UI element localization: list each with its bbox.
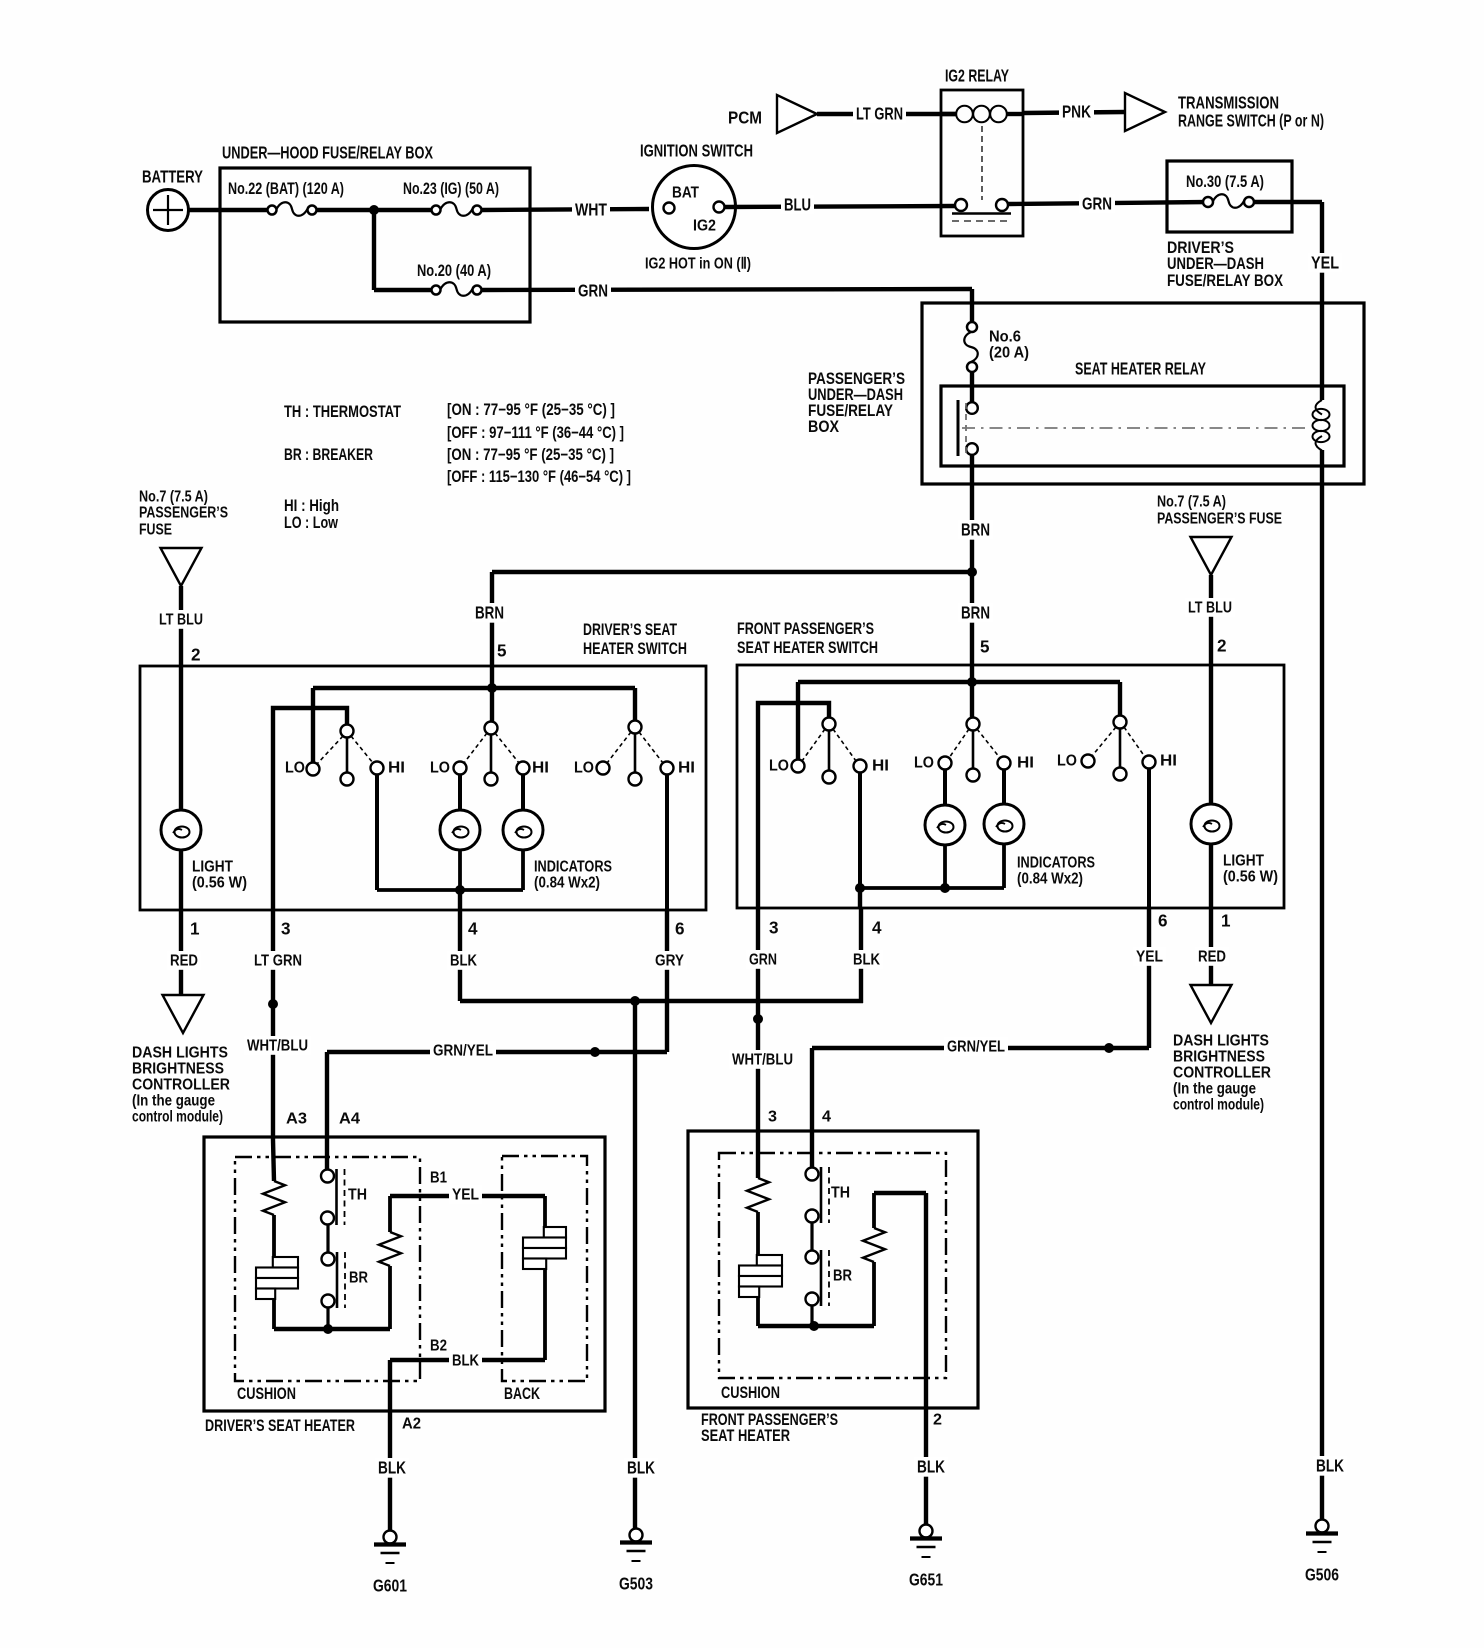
junction node cushion passenger: [809, 1321, 819, 1331]
indicator lamp 2 driver: [503, 810, 543, 850]
wire switch3 HI to pin 6: [665, 774, 669, 910]
svg-text:No.20 (40 A): No.20 (40 A): [417, 262, 491, 280]
svg-text:YEL: YEL: [452, 1187, 479, 1204]
heater resistor 2 driver: [379, 1196, 401, 1329]
fuse No.20 (40 A): [417, 262, 491, 296]
wire BLK pin4 to ground bus: [447, 910, 863, 1001]
svg-text:PNK: PNK: [1062, 103, 1092, 122]
svg-text:A4: A4: [339, 1111, 360, 1128]
wire GRY pin6 to GRN/YEL line: [327, 910, 687, 1140]
svg-text:G506: G506: [1305, 1566, 1339, 1585]
svg-text:LO: LO: [914, 755, 934, 772]
svg-text:[ON : 77−95 °F (25−35 °C) ]: [ON : 77−95 °F (25−35 °C) ]: [447, 446, 614, 464]
cushion dash-dot box driver: [235, 1157, 420, 1403]
svg-text:SEAT HEATER RELAY: SEAT HEATER RELAY: [1075, 360, 1206, 379]
svg-text:PASSENGER’S: PASSENGER’S: [139, 505, 228, 522]
junction node passenger bus pin5: [967, 677, 977, 687]
fuse No.23 (IG) (50 A): [403, 180, 499, 216]
svg-text:DRIVER’S SEAT: DRIVER’S SEAT: [583, 621, 677, 639]
svg-text:LO: LO: [1057, 753, 1077, 770]
wire passenger switch2 HI to indicator 2: [1002, 769, 1006, 805]
svg-text:6: 6: [1158, 912, 1168, 931]
wire bus to switch3 pivot: [633, 688, 637, 721]
svg-text:control module): control module): [1173, 1097, 1264, 1114]
wire passenger switch2 LO to indicator 1: [943, 769, 947, 806]
fuse No.22 (BAT) (120 A): [228, 180, 344, 216]
indicator lamp 1 passenger: [925, 805, 965, 845]
svg-text:[OFF : 97−111 °F (36−44 °C) ]: [OFF : 97−111 °F (36−44 °C) ]: [447, 424, 624, 442]
wire YEL relay coil down to G506: [1320, 450, 1324, 1520]
wire junction down to fuse No.20: [372, 210, 376, 290]
svg-text:BOX: BOX: [808, 418, 839, 436]
svg-text:DASH LIGHTS: DASH LIGHTS: [132, 1045, 228, 1062]
svg-text:(0.84 Wx2): (0.84 Wx2): [1017, 871, 1083, 888]
svg-text:BLK: BLK: [378, 1459, 407, 1478]
passenger switch position 2: [914, 718, 1034, 782]
wire YEL passenger pin6 to GRN/YEL line: [812, 908, 1166, 1131]
wire switch1 pivot to pin 3: [273, 708, 347, 910]
svg-text:BRN: BRN: [961, 604, 990, 623]
wire GRN down into passenger under-dash box: [970, 289, 974, 327]
wire RED passenger pin1 to controller: [1191, 908, 1232, 1023]
junction node bus pin5: [487, 683, 497, 693]
driver's under-dash fuse/relay box with fuse No.30 (7.5 A): [1167, 161, 1292, 290]
wire pin 5 into driver switch: [490, 666, 494, 688]
driver's seat heater switch box: [140, 621, 706, 910]
svg-text:(0.56 W): (0.56 W): [192, 875, 247, 892]
svg-text:No.23 (IG) (50 A): No.23 (IG) (50 A): [403, 180, 499, 198]
svg-text:3: 3: [769, 919, 779, 938]
wire switch1 HI down to indicator bus: [375, 774, 379, 890]
svg-text:BLK: BLK: [452, 1353, 479, 1370]
wire passenger switch1 pivot to pin 3: [758, 703, 829, 908]
svg-text:2: 2: [933, 1412, 942, 1429]
svg-text:FUSE: FUSE: [139, 522, 172, 539]
svg-text:LO: LO: [769, 758, 789, 775]
svg-text:No.22 (BAT) (120 A): No.22 (BAT) (120 A): [228, 180, 344, 198]
relay IG2 RELAY: [941, 67, 1023, 237]
svg-text:BRIGHTNESS: BRIGHTNESS: [1173, 1049, 1265, 1066]
wire bus to passenger switch1 LO: [796, 682, 800, 760]
seat heater relay: [941, 360, 1344, 467]
svg-text:No.30 (7.5 A): No.30 (7.5 A): [1186, 173, 1264, 191]
ground G601: [384, 1531, 397, 1544]
wire GRN fuse No.20 to passenger under-dash box: [481, 281, 972, 301]
wire LT GRN PCM to IG2 relay coil: [817, 104, 956, 124]
wire BRN branch to driver's switch: [472, 572, 972, 666]
svg-text:BRIGHTNESS: BRIGHTNESS: [132, 1061, 224, 1078]
front passenger's seat heater box: [688, 1131, 978, 1445]
svg-text:GRN/YEL: GRN/YEL: [947, 1039, 1005, 1056]
indicator lamp 2 passenger: [984, 804, 1024, 844]
svg-text:HI: HI: [872, 758, 889, 775]
passenger's under-dash fuse/relay box: [808, 303, 1364, 484]
cushion dash-dot box passenger: [719, 1153, 946, 1402]
svg-text:UNDER—DASH: UNDER—DASH: [1167, 255, 1264, 273]
svg-text:LT GRN: LT GRN: [254, 953, 302, 970]
svg-text:GRN: GRN: [749, 952, 777, 969]
wire BLK passenger pin4 to ground bus: [850, 908, 883, 1003]
svg-text:A3: A3: [286, 1111, 307, 1128]
passenger switch internal bus: [798, 680, 1120, 684]
wire BLK down to G503: [633, 1001, 637, 1529]
svg-text:2: 2: [1217, 637, 1227, 656]
svg-text:A2: A2: [402, 1416, 421, 1433]
svg-text:(In the gauge: (In the gauge: [1173, 1081, 1256, 1098]
labels 3 4 passenger heater: [768, 1109, 831, 1126]
svg-text:LT BLU: LT BLU: [159, 612, 203, 629]
svg-text:PCM: PCM: [728, 109, 762, 128]
svg-text:LO: LO: [574, 760, 594, 777]
svg-text:LT BLU: LT BLU: [1188, 600, 1232, 617]
label indicators driver: [534, 859, 612, 892]
svg-text:HI: HI: [388, 760, 405, 777]
svg-text:GRY: GRY: [655, 953, 684, 970]
svg-text:CONTROLLER: CONTROLLER: [1173, 1065, 1271, 1082]
passenger switch position 3: [1057, 716, 1177, 781]
svg-text:UNDER—HOOD FUSE/RELAY BOX: UNDER—HOOD FUSE/RELAY BOX: [222, 144, 433, 163]
ground G506: [1316, 1520, 1329, 1533]
svg-text:RED: RED: [1198, 949, 1226, 966]
label dash lights brightness controller driver: [132, 1045, 230, 1126]
labels A3 A4 driver: [286, 1111, 360, 1128]
svg-text:SEAT HEATER SWITCH: SEAT HEATER SWITCH: [737, 639, 878, 657]
connector to transmission range switch: [1125, 93, 1324, 131]
junction node cushion driver: [323, 1324, 333, 1334]
svg-text:BR: BR: [833, 1268, 852, 1285]
svg-text:4: 4: [468, 920, 478, 939]
driver switch internal bus: [313, 686, 635, 690]
wire passenger element to pin 2: [874, 1193, 948, 1525]
svg-text:IG2: IG2: [693, 218, 716, 235]
wire battery to under-hood box: [188, 208, 272, 212]
svg-text:FRONT PASSENGER’S: FRONT PASSENGER’S: [737, 620, 874, 638]
svg-text:No.7 (7.5 A): No.7 (7.5 A): [1157, 494, 1226, 511]
svg-text:LO: LO: [285, 760, 305, 777]
svg-text:HI: HI: [1160, 753, 1177, 770]
svg-text:LIGHT: LIGHT: [192, 859, 233, 876]
front passenger's seat heater switch box: [737, 620, 1284, 908]
label indicators passenger: [1017, 855, 1095, 888]
svg-text:GRN: GRN: [578, 282, 608, 301]
connector node on passenger pin3 wire: [753, 1014, 763, 1024]
passenger switch position 1: [769, 718, 889, 784]
svg-text:LO: LO: [430, 760, 450, 777]
label BLK right side: [1313, 1456, 1347, 1476]
svg-text:[OFF : 115−130 °F (46−54 °C) ]: [OFF : 115−130 °F (46−54 °C) ]: [447, 468, 631, 486]
svg-text:3: 3: [768, 1109, 777, 1126]
wire BLK B2 from back element: [390, 1338, 545, 1370]
svg-text:WHT/BLU: WHT/BLU: [732, 1052, 793, 1069]
wire fuse No.6 to relay contact: [970, 372, 974, 403]
svg-text:WHT/BLU: WHT/BLU: [247, 1038, 308, 1055]
driver's seat heater box: [204, 1137, 605, 1435]
thermostat TH passenger: [806, 1131, 851, 1223]
label BLK middle: [624, 1458, 658, 1478]
svg-text:5: 5: [497, 642, 507, 661]
svg-text:DRIVER’S SEAT HEATER: DRIVER’S SEAT HEATER: [205, 1417, 355, 1435]
breaker BR driver: [322, 1224, 369, 1329]
svg-text:RED: RED: [170, 953, 198, 970]
wire switch2 HI to indicator 2: [521, 774, 525, 811]
illumination light driver: [161, 666, 247, 910]
ground G503: [630, 1529, 643, 1542]
svg-text:DASH LIGHTS: DASH LIGHTS: [1173, 1033, 1269, 1050]
driver switch position 3: [574, 721, 695, 786]
connector node on GRN/YEL passenger: [1104, 1043, 1114, 1053]
connector node on driver pin3 wire: [268, 999, 278, 1009]
driver switch position 1: [285, 725, 405, 786]
svg-text:BLU: BLU: [784, 196, 811, 215]
wire indicator bus driver: [377, 850, 523, 910]
wire passenger switch3 HI to pin 6: [1147, 768, 1151, 908]
svg-text:BLK: BLK: [917, 1458, 946, 1477]
wire RED pin1 to dash lights controller driver: [163, 910, 204, 1033]
svg-text:INDICATORS: INDICATORS: [1017, 855, 1095, 872]
wire LT GRN / WHT/BLU pin3 to A3: [244, 910, 311, 1140]
wire bus to passenger switch3 pivot: [1118, 682, 1122, 716]
svg-text:BATTERY: BATTERY: [142, 168, 203, 187]
svg-text:BR: BR: [349, 1270, 368, 1287]
svg-text:(0.56 W): (0.56 W): [1223, 869, 1278, 886]
svg-text:3: 3: [281, 920, 291, 939]
wire BRN relay contact down to switches: [958, 454, 993, 666]
svg-text:HEATER SWITCH: HEATER SWITCH: [583, 640, 687, 658]
wire bus to switch1 LO contact: [311, 688, 315, 763]
svg-text:(0.84 Wx2): (0.84 Wx2): [534, 875, 600, 892]
svg-text:1: 1: [1221, 912, 1231, 931]
junction node BRN branch: [967, 567, 977, 577]
passenger switch pin labels: [769, 912, 1231, 938]
ground G651: [920, 1525, 933, 1538]
heater resistor driver cushion: [263, 1140, 285, 1257]
svg-text:BLK: BLK: [627, 1459, 656, 1478]
wire GRN / WHT/BLU passenger pin3: [729, 908, 796, 1131]
battery B1: [142, 168, 203, 231]
svg-text:5: 5: [980, 638, 990, 657]
svg-text:BACK: BACK: [504, 1385, 540, 1403]
svg-text:WHT: WHT: [575, 201, 607, 220]
svg-text:HI: HI: [1017, 755, 1034, 772]
svg-text:CUSHION: CUSHION: [721, 1384, 780, 1402]
svg-text:GRN/YEL: GRN/YEL: [433, 1043, 493, 1060]
connector node on GRN/YEL driver: [590, 1047, 600, 1057]
svg-text:FUSE/RELAY BOX: FUSE/RELAY BOX: [1167, 272, 1283, 290]
svg-text:RANGE SWITCH (P or N): RANGE SWITCH (P or N): [1178, 112, 1324, 131]
svg-text:2: 2: [191, 646, 201, 665]
svg-text:B2: B2: [430, 1338, 447, 1355]
back dash-dot box driver: [502, 1156, 587, 1403]
svg-text:LT GRN: LT GRN: [856, 105, 903, 124]
svg-text:BAT: BAT: [672, 185, 699, 202]
thermostat TH driver: [321, 1140, 367, 1225]
svg-text:TH: TH: [831, 1185, 850, 1202]
wire YEL B1 to back element: [390, 1170, 545, 1204]
heater resistor passenger cushion: [747, 1131, 769, 1255]
wire GRN IG2 relay to fuse No.30: [1008, 194, 1208, 214]
wire fuse No.22 to junction: [316, 208, 436, 212]
svg-text:BLK: BLK: [450, 953, 477, 970]
junction node indicator bus: [455, 885, 465, 895]
under-hood fuse/relay box: [220, 144, 530, 323]
svg-text:BRN: BRN: [961, 521, 990, 540]
svg-text:No.7 (7.5 A): No.7 (7.5 A): [139, 489, 208, 506]
svg-text:IGNITION SWITCH: IGNITION SWITCH: [640, 142, 753, 161]
svg-text:YEL: YEL: [1311, 254, 1339, 273]
svg-text:G651: G651: [909, 1571, 943, 1590]
svg-text:PASSENGER’S FUSE: PASSENGER’S FUSE: [1157, 511, 1282, 528]
wire pin 5 into passenger switch: [970, 665, 974, 682]
svg-text:BRN: BRN: [475, 604, 504, 623]
svg-text:B1: B1: [430, 1170, 447, 1187]
svg-text:INDICATORS: INDICATORS: [534, 859, 612, 876]
svg-text:CONTROLLER: CONTROLLER: [132, 1077, 230, 1094]
driver switch pin labels: [190, 920, 685, 939]
wire A2 down to G601: [375, 1360, 421, 1531]
svg-text:IG2 RELAY: IG2 RELAY: [945, 67, 1009, 86]
svg-text:TRANSMISSION: TRANSMISSION: [1178, 94, 1279, 113]
wire pin5 to passenger switch2 pivot: [970, 682, 974, 718]
svg-text:TH : THERMOSTAT: TH : THERMOSTAT: [284, 403, 401, 421]
driver switch position 2: [430, 722, 549, 786]
svg-text:4: 4: [872, 919, 882, 938]
indicator lamp 1 driver: [440, 810, 480, 850]
svg-text:G503: G503: [619, 1575, 653, 1594]
cushion bottom wire driver: [274, 1327, 390, 1331]
heater element passenger cushion: [739, 1255, 782, 1326]
fuse No.7 (7.5 A) passenger's fuse left: [139, 489, 228, 666]
svg-text:1: 1: [190, 920, 200, 939]
svg-text:6: 6: [675, 920, 685, 939]
svg-text:BLK: BLK: [1316, 1457, 1345, 1476]
svg-text:No.6: No.6: [989, 329, 1021, 346]
svg-text:SEAT HEATER: SEAT HEATER: [701, 1427, 790, 1445]
wire PNK IG2 relay to transmission range switch: [1023, 102, 1125, 122]
svg-text:[ON : 77−95 °F (25−35 °C) ]: [ON : 77−95 °F (25−35 °C) ]: [447, 401, 615, 419]
legend thermostat/breaker: [284, 401, 631, 532]
fuse No.6 (20 A): [964, 322, 1029, 372]
svg-text:(20 A): (20 A): [989, 345, 1029, 362]
breaker BR passenger: [806, 1222, 853, 1326]
junction node in under-hood box: [369, 205, 379, 215]
wire WHT fuse No.23 to ignition switch: [481, 200, 649, 220]
svg-text:TH: TH: [348, 1187, 367, 1204]
wire indicator bus passenger: [860, 844, 1004, 908]
junction node passenger indicator: [940, 883, 950, 893]
cushion bottom wire passenger: [758, 1324, 874, 1328]
wire YEL fuse No.30 down right side: [1253, 202, 1342, 400]
wire BLU ignition to IG2 relay: [725, 195, 955, 215]
svg-text:HI: HI: [532, 760, 549, 777]
svg-text:LO : Low: LO : Low: [284, 514, 338, 532]
svg-text:control module): control module): [132, 1109, 223, 1126]
fuse No.7 (7.5 A) passenger's fuse right: [1157, 494, 1282, 665]
heater resistor 2 passenger: [863, 1193, 885, 1326]
svg-text:HI : High: HI : High: [284, 497, 339, 515]
wire pin5 to switch2 pivot: [490, 688, 494, 722]
svg-text:LIGHT: LIGHT: [1223, 853, 1264, 870]
svg-text:YEL: YEL: [1136, 949, 1163, 966]
label dash lights brightness controller passenger: [1173, 1033, 1271, 1114]
ignition switch: [640, 142, 753, 273]
wire switch2 LO to indicator 1: [458, 774, 462, 811]
svg-text:4: 4: [822, 1109, 831, 1126]
svg-text:BR : BREAKER: BR : BREAKER: [284, 446, 373, 464]
wire passenger switch1 HI down: [858, 772, 862, 888]
junction node BLK ground bus: [630, 996, 640, 1006]
junction node passenger pin4: [855, 883, 865, 893]
svg-text:BLK: BLK: [853, 952, 880, 969]
illumination light passenger: [1191, 665, 1278, 908]
svg-text:(In the gauge: (In the gauge: [132, 1093, 215, 1110]
heater element driver back: [523, 1196, 566, 1360]
svg-text:HI: HI: [678, 760, 695, 777]
svg-text:IG2 HOT in ON (Ⅱ): IG2 HOT in ON (Ⅱ): [645, 256, 751, 273]
connector from PCM: [728, 95, 817, 133]
svg-text:G601: G601: [373, 1577, 407, 1596]
heater element driver cushion: [256, 1257, 298, 1329]
svg-text:CUSHION: CUSHION: [237, 1385, 296, 1403]
svg-text:GRN: GRN: [1082, 195, 1112, 214]
